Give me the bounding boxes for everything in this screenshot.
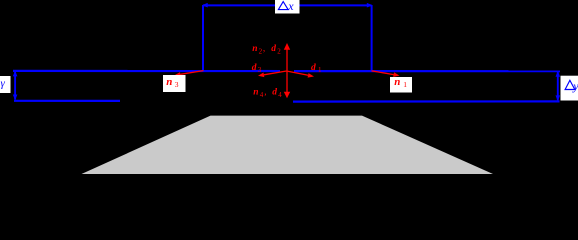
svg-text:4: 4 bbox=[278, 91, 282, 99]
svg-text:n: n bbox=[394, 76, 400, 88]
svg-text:d: d bbox=[271, 44, 276, 54]
svg-text:,: , bbox=[263, 44, 265, 54]
svg-text:γ: γ bbox=[1, 78, 6, 90]
svg-text:d: d bbox=[272, 88, 277, 98]
svg-text:d: d bbox=[252, 63, 257, 73]
svg-text:,: , bbox=[264, 88, 266, 98]
svg-text:d: d bbox=[311, 63, 316, 73]
svg-text:1: 1 bbox=[403, 80, 407, 89]
svg-text:n: n bbox=[252, 44, 257, 54]
svg-text:4: 4 bbox=[260, 91, 264, 99]
svg-text:n: n bbox=[253, 88, 258, 98]
svg-text:3: 3 bbox=[258, 66, 262, 74]
svg-text:1: 1 bbox=[318, 66, 322, 74]
svg-text:2: 2 bbox=[277, 48, 281, 56]
svg-text:y: y bbox=[572, 79, 578, 93]
svg-text:x: x bbox=[287, 0, 294, 13]
svg-text:n: n bbox=[166, 76, 172, 88]
svg-text:3: 3 bbox=[175, 80, 179, 89]
